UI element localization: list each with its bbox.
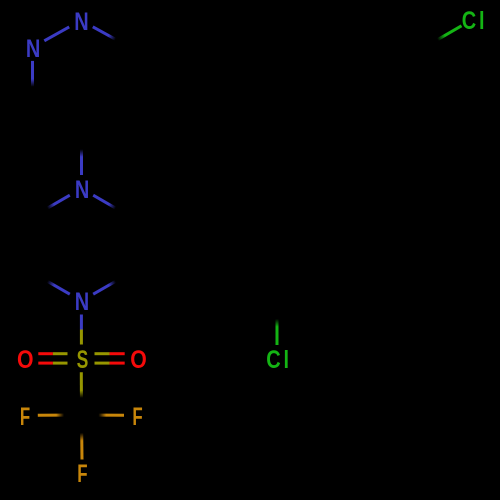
svg-text:S: S — [77, 345, 89, 374]
svg-text:N: N — [26, 35, 40, 63]
svg-text:N: N — [75, 176, 89, 204]
svg-text:N: N — [74, 8, 88, 36]
svg-text:F: F — [132, 403, 142, 431]
svg-text:O: O — [130, 345, 147, 373]
svg-text:N: N — [75, 288, 89, 316]
svg-text:F: F — [20, 403, 30, 431]
svg-text:Cl: Cl — [266, 346, 292, 374]
svg-text:O: O — [17, 345, 34, 373]
svg-text:Cl: Cl — [462, 7, 488, 35]
svg-text:F: F — [77, 460, 87, 488]
